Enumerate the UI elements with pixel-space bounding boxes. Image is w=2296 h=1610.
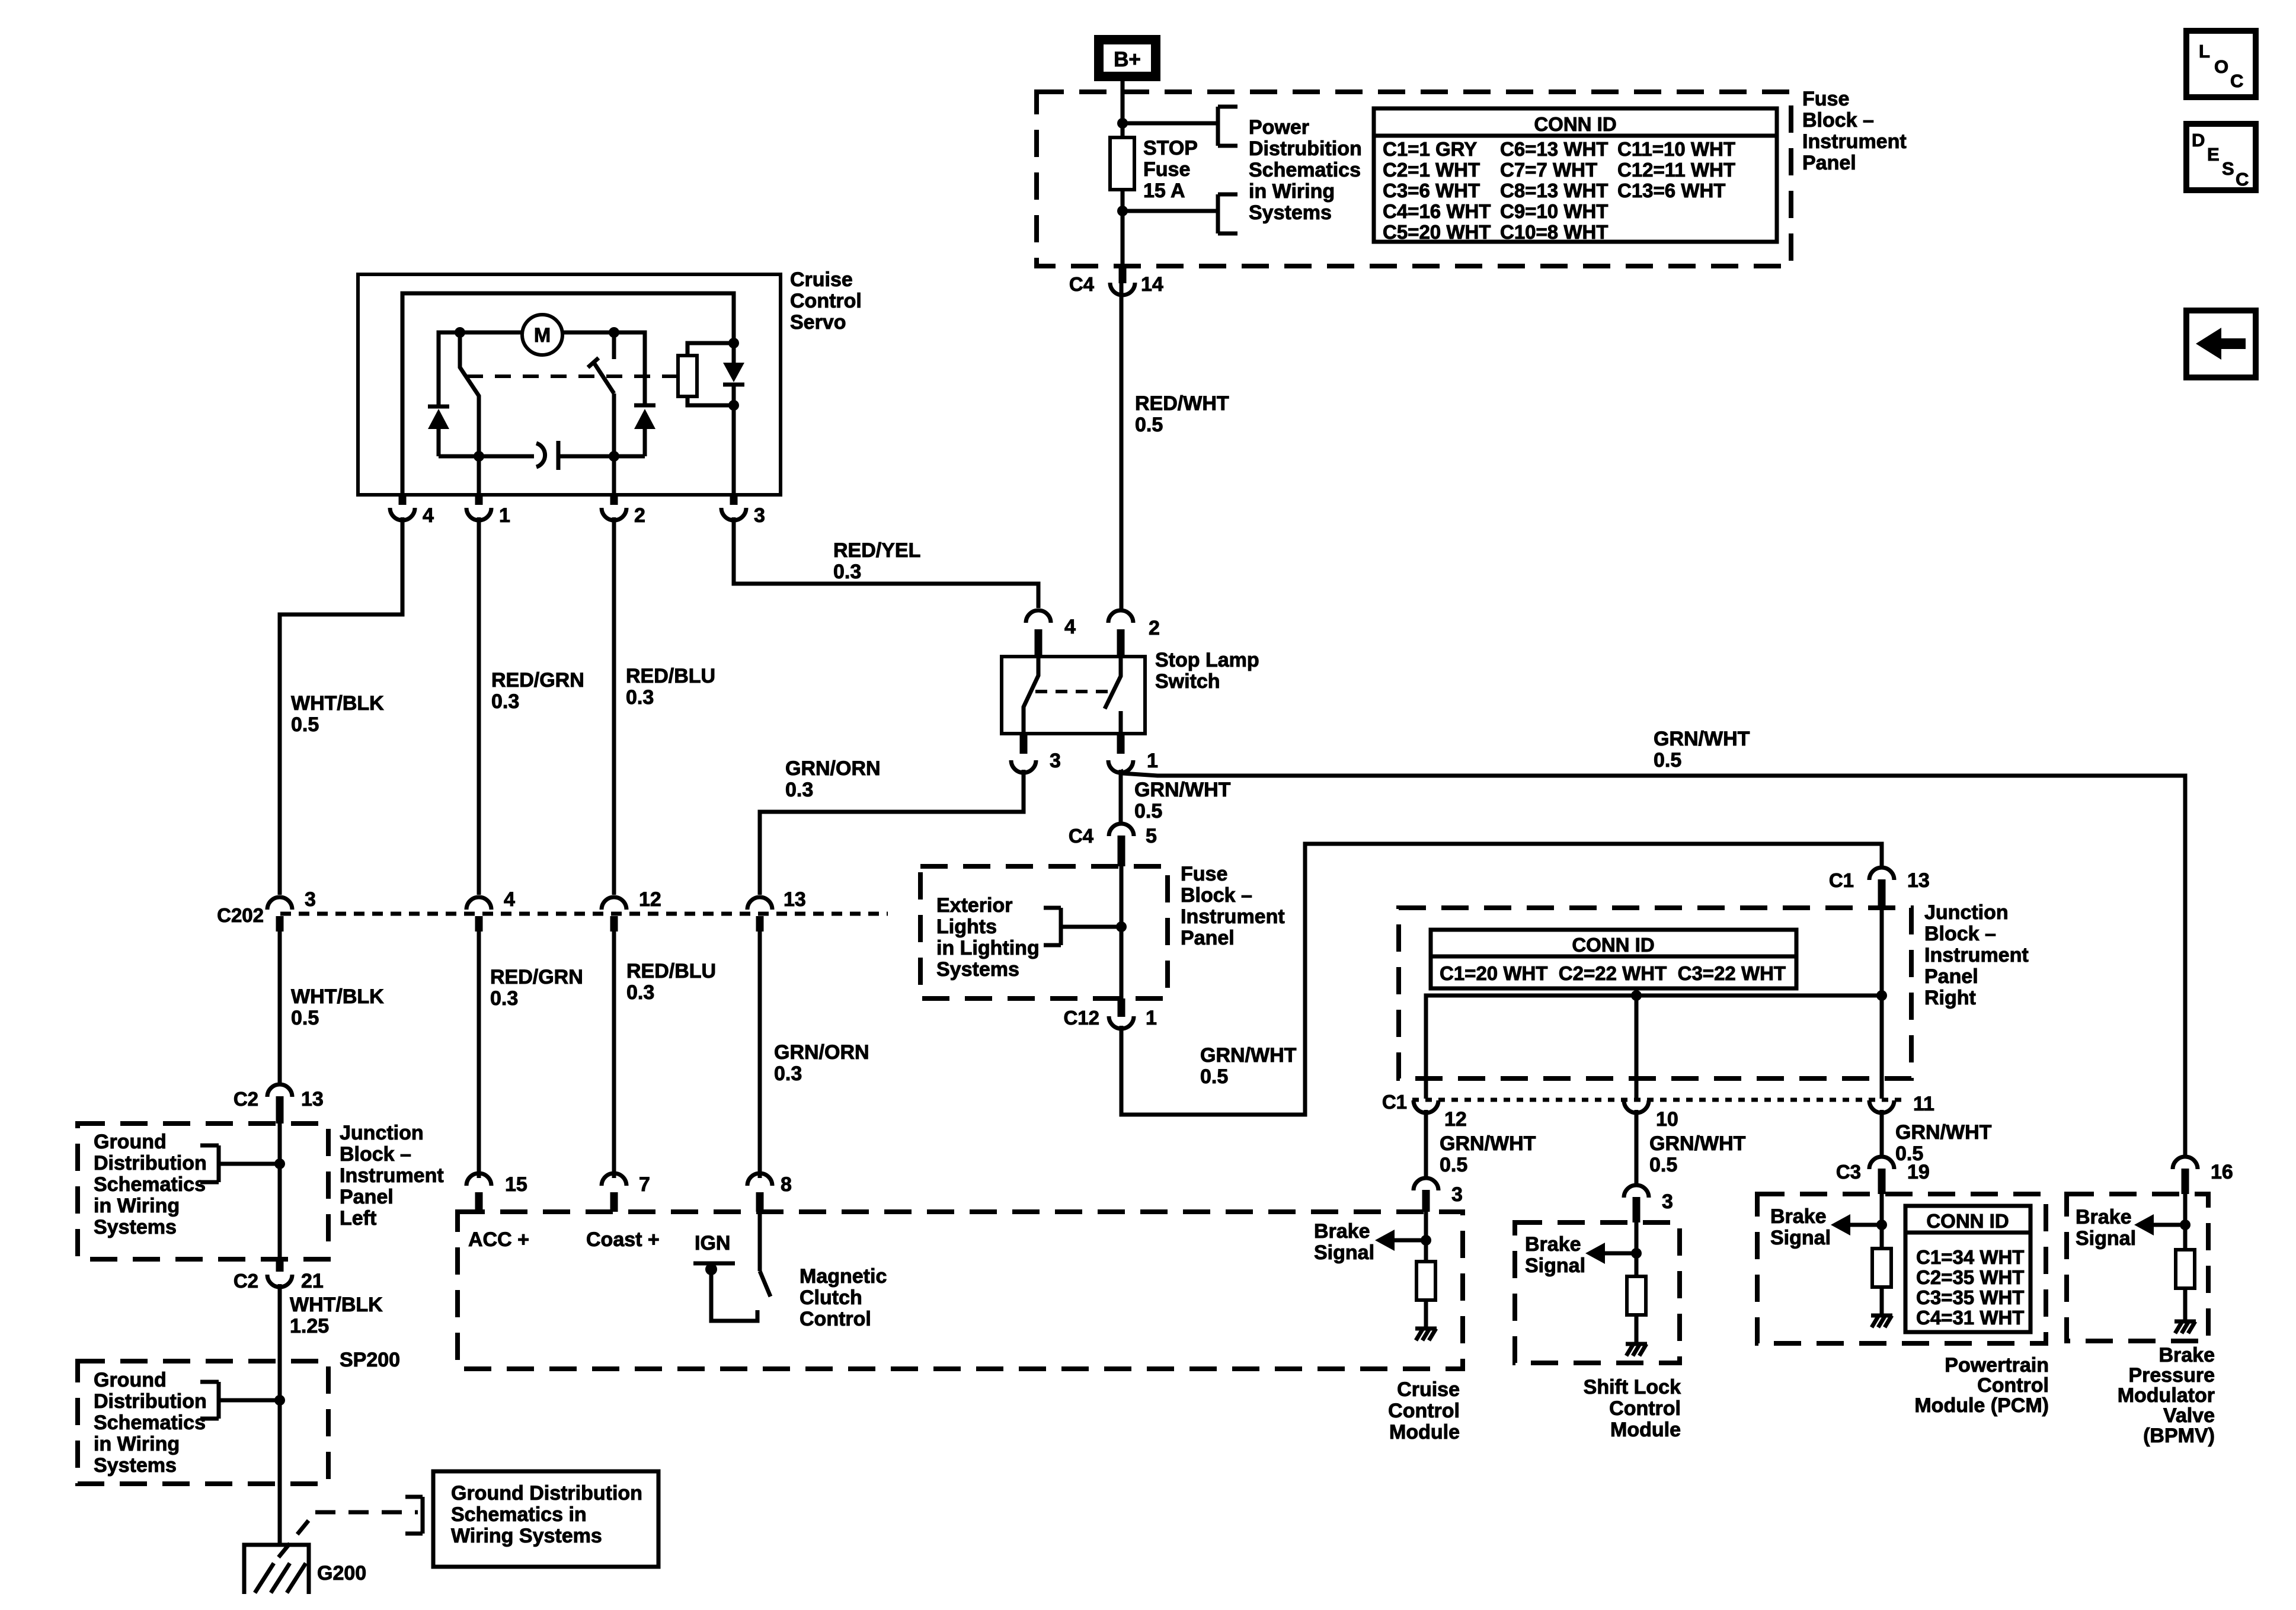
svg-text:RED/GRN: RED/GRN <box>490 966 583 988</box>
svg-text:Signal: Signal <box>1314 1241 1374 1264</box>
brake signal arrow shift <box>1605 1251 1636 1256</box>
wire exterior lights tap <box>1061 925 1121 929</box>
svg-text:M: M <box>534 324 551 347</box>
brake signal arrow pcm <box>1850 1223 1882 1227</box>
node pcm brake tap <box>1876 1219 1887 1230</box>
shift lock pin3 connector <box>1624 1185 1649 1198</box>
servo bottom wire left <box>439 454 534 459</box>
wire C1-13 through block <box>1880 908 1884 1099</box>
svg-text:Instrument: Instrument <box>340 1164 444 1187</box>
svg-text:0.5: 0.5 <box>1649 1154 1677 1176</box>
IGN feed symbol <box>693 1262 735 1266</box>
svg-text:C2: C2 <box>234 1088 258 1110</box>
svg-text:Instrument: Instrument <box>1802 130 1907 153</box>
servo switch 2 contact <box>612 332 616 359</box>
svg-text:Systems: Systems <box>94 1454 177 1477</box>
svg-text:Cruise: Cruise <box>1397 1378 1460 1401</box>
module pin 8 connector <box>747 1173 772 1186</box>
svg-text:C1: C1 <box>1382 1091 1407 1113</box>
svg-text:C1=1 GRY: C1=1 GRY <box>1383 138 1477 160</box>
svg-text:0.5: 0.5 <box>291 1007 319 1029</box>
wire inside junction left <box>278 1124 282 1259</box>
wire ground distribution tap 2 <box>219 1398 280 1403</box>
wire WHT/BLK C202-3 to C2-13 <box>278 932 282 1084</box>
node servo D3 bottom <box>728 400 739 411</box>
stop lamp pin 3 stub <box>1020 734 1028 754</box>
node motor line right <box>609 327 619 338</box>
svg-text:GRN/WHT: GRN/WHT <box>1134 779 1231 801</box>
svg-text:0.3: 0.3 <box>626 686 654 709</box>
BPMV dashed box <box>2067 1194 2208 1341</box>
connector C2 pin 21 <box>267 1275 292 1287</box>
svg-text:19: 19 <box>1907 1161 1930 1183</box>
svg-text:C1: C1 <box>1829 869 1854 891</box>
svg-text:C4: C4 <box>1069 825 1094 847</box>
svg-text:Ground: Ground <box>94 1369 167 1391</box>
svg-text:13: 13 <box>1907 869 1930 892</box>
svg-text:Block –: Block – <box>340 1143 411 1166</box>
connector C202 pin 12 <box>602 897 626 910</box>
battery feed B+ box <box>1094 35 1160 81</box>
svg-text:Schematics in: Schematics in <box>451 1503 587 1526</box>
brake signal arrow bpmv <box>2154 1223 2185 1227</box>
svg-text:Distribution: Distribution <box>94 1390 207 1413</box>
node motor line left <box>455 327 465 338</box>
svg-text:12: 12 <box>639 888 661 911</box>
stop lamp pin 1 connector <box>1108 760 1133 773</box>
magnetic clutch switch wire <box>758 1212 762 1271</box>
svg-text:C10=8 WHT: C10=8 WHT <box>1500 221 1608 243</box>
svg-text:GRN/WHT: GRN/WHT <box>1895 1121 1992 1144</box>
cruise control module dashed box <box>458 1212 1463 1369</box>
svg-text:Control: Control <box>1388 1400 1460 1422</box>
svg-text:0.3: 0.3 <box>626 981 654 1004</box>
svg-text:GRN/WHT: GRN/WHT <box>1200 1044 1297 1067</box>
wire junction bus <box>1426 996 1882 1099</box>
svg-text:14: 14 <box>1141 273 1163 296</box>
svg-text:C2=1 WHT: C2=1 WHT <box>1383 159 1480 181</box>
bracket exterior lights <box>1059 908 1063 945</box>
connector C1 pin 11 <box>1869 1100 1894 1113</box>
wire inside fuse block 2 <box>1120 866 1124 998</box>
fuse block 2 dashed box <box>920 866 1168 998</box>
bpmv pin16 connector <box>2173 1157 2198 1169</box>
servo inner loop wire <box>402 293 734 495</box>
svg-text:in Wiring: in Wiring <box>94 1195 180 1217</box>
servo pin 3 connector <box>721 508 746 520</box>
svg-text:0.5: 0.5 <box>1440 1154 1467 1176</box>
bpmv resistor <box>2176 1250 2195 1288</box>
wire RED/GRN servo pin1 to C202-4 <box>477 517 481 895</box>
svg-text:Fuse: Fuse <box>1802 88 1849 110</box>
connector C4 pin 14 stub <box>1119 266 1127 283</box>
svg-text:C12: C12 <box>1063 1007 1099 1029</box>
svg-text:7: 7 <box>639 1173 650 1196</box>
svg-text:Signal: Signal <box>2076 1227 2136 1250</box>
svg-text:16: 16 <box>2211 1161 2233 1183</box>
svg-text:in Lighting: in Lighting <box>936 937 1040 959</box>
wire ground distribution tap 1 <box>219 1162 280 1166</box>
svg-text:0.5: 0.5 <box>1135 414 1163 436</box>
svg-text:Systems: Systems <box>94 1216 177 1238</box>
connector C1 pin 12 <box>1414 1100 1438 1113</box>
wire RED/BLU C202-12 to pin7 <box>612 932 616 1178</box>
svg-text:21: 21 <box>301 1270 324 1292</box>
svg-text:Panel: Panel <box>1924 965 1978 988</box>
svg-text:CONN ID: CONN ID <box>1534 113 1616 135</box>
connector C2-13 stub <box>276 1096 284 1124</box>
svg-text:RED/YEL: RED/YEL <box>833 539 920 562</box>
wire B+ to fuse <box>1121 81 1125 137</box>
svg-text:Module: Module <box>1389 1421 1460 1443</box>
bpmv pin16 stub <box>2182 1169 2189 1194</box>
svg-text:IGN: IGN <box>695 1232 730 1254</box>
servo pin 1 connector <box>466 508 491 520</box>
connector C12 pin 1 stub <box>1118 998 1125 1017</box>
node bpmv brake tap <box>2180 1219 2191 1230</box>
svg-text:SP200: SP200 <box>340 1349 400 1371</box>
svg-text:WHT/BLK: WHT/BLK <box>291 985 384 1008</box>
wire RED/BLU servo pin2 to C202-12 <box>612 517 616 895</box>
svg-text:GRN/WHT: GRN/WHT <box>1440 1132 1536 1155</box>
servo resistor linkage tick <box>669 375 678 378</box>
svg-text:Right: Right <box>1924 987 1976 1009</box>
back arrow box <box>2186 311 2256 377</box>
svg-text:8: 8 <box>781 1173 792 1196</box>
svg-text:Block –: Block – <box>1802 109 1874 132</box>
stop lamp switch 1 blade <box>1024 657 1038 734</box>
wire servo pin1 inside <box>477 456 481 495</box>
svg-text:C11=10 WHT: C11=10 WHT <box>1617 138 1735 160</box>
svg-text:C12=11 WHT: C12=11 WHT <box>1617 159 1735 181</box>
dashed link to ground note <box>279 1512 315 1557</box>
svg-text:C3=35 WHT: C3=35 WHT <box>1916 1286 2024 1308</box>
wire WHT/BLK C2-21 down <box>278 1284 282 1547</box>
connector C202 pin 3 <box>267 897 292 910</box>
stop lamp pin 1 stub <box>1117 734 1125 754</box>
connector C4 pin 14 <box>1110 283 1135 295</box>
node junction bus right <box>1876 990 1887 1001</box>
connector C4 pin 5 <box>1109 824 1134 836</box>
ground bpmv <box>2175 1320 2196 1324</box>
wire C4-14 to stop lamp pin 2 <box>1120 283 1124 610</box>
svg-text:Control: Control <box>1609 1397 1681 1420</box>
svg-text:15 A: 15 A <box>1143 180 1185 202</box>
svg-text:Fuse: Fuse <box>1143 158 1190 181</box>
svg-text:13: 13 <box>301 1088 324 1110</box>
servo switch 2 blade <box>594 363 614 393</box>
svg-text:Pressure: Pressure <box>2128 1364 2215 1387</box>
wire shift resistor to ground <box>1635 1315 1639 1344</box>
wire junction branch 10 <box>1635 996 1639 1099</box>
wire cruise pin3 inside <box>1424 1212 1428 1262</box>
wire fuse top branch <box>1123 121 1218 126</box>
servo pin 2 stub <box>610 495 618 505</box>
svg-text:C5=20 WHT: C5=20 WHT <box>1383 221 1491 243</box>
svg-text:GRN/ORN: GRN/ORN <box>774 1041 869 1064</box>
svg-text:C13=6 WHT: C13=6 WHT <box>1617 180 1725 201</box>
svg-text:CONN ID: CONN ID <box>1572 934 1654 956</box>
diode D3 (down) <box>723 363 744 382</box>
wire GRN/ORN C202-13 to pin8 <box>758 932 762 1178</box>
svg-text:WHT/BLK: WHT/BLK <box>291 692 384 715</box>
servo resistor <box>678 356 697 396</box>
svg-text:C3: C3 <box>1836 1161 1861 1183</box>
node shift brake tap <box>1631 1248 1642 1259</box>
wire pcm resistor to ground <box>1880 1287 1884 1315</box>
node ground tap 1 <box>274 1158 285 1169</box>
svg-text:Shift Lock: Shift Lock <box>1584 1376 1681 1398</box>
connector C202 pin 4 stub <box>475 916 483 932</box>
DESC reference box <box>2186 124 2256 190</box>
node junction bus mid <box>1631 990 1642 1001</box>
svg-text:Block –: Block – <box>1181 884 1252 907</box>
motor M circle <box>522 315 562 355</box>
svg-text:0.3: 0.3 <box>833 561 861 583</box>
stop lamp switch 2 lower <box>1119 711 1123 734</box>
connector C202 pin 13 <box>747 897 772 910</box>
svg-text:C: C <box>2230 71 2243 91</box>
svg-text:13: 13 <box>784 888 806 911</box>
svg-text:10: 10 <box>1656 1108 1678 1131</box>
wire RED/YEL servo pin3 to stop lamp pin4 <box>734 517 1038 608</box>
connector C202 pin 13 stub <box>756 916 764 932</box>
wire motor line right segment <box>562 332 645 404</box>
svg-text:Distrubition: Distrubition <box>1249 137 1362 160</box>
svg-text:Block –: Block – <box>1924 923 1996 945</box>
svg-text:C4=16 WHT: C4=16 WHT <box>1383 200 1491 222</box>
bracket to power distribution bottom <box>1216 194 1220 233</box>
svg-text:12: 12 <box>1444 1108 1467 1131</box>
svg-text:Wiring Systems: Wiring Systems <box>451 1525 602 1547</box>
svg-text:4: 4 <box>504 888 515 911</box>
wire GRN/WHT to PCM <box>1880 1110 1884 1156</box>
LOC reference box <box>2186 31 2256 97</box>
svg-text:Schematics: Schematics <box>94 1173 206 1196</box>
junction C1 row dotted line <box>1412 1098 1902 1102</box>
svg-text:RED/BLU: RED/BLU <box>626 665 715 687</box>
svg-text:S: S <box>2222 158 2234 179</box>
svg-text:1: 1 <box>499 504 510 527</box>
bracket to power distribution top <box>1216 107 1220 146</box>
stop lamp pin 2 stub <box>1117 629 1125 657</box>
svg-text:C2=35 WHT: C2=35 WHT <box>1916 1266 2024 1288</box>
svg-text:C2: C2 <box>234 1270 258 1292</box>
table CONN ID pcm <box>1905 1206 2030 1332</box>
svg-text:Fuse: Fuse <box>1181 863 1227 885</box>
servo pin 2 connector <box>602 508 626 520</box>
svg-text:Brake: Brake <box>1314 1220 1370 1243</box>
connector C2 pin 13 <box>267 1084 292 1097</box>
stop lamp linkage dashed <box>1035 690 1112 693</box>
node ground tap 2 <box>274 1395 285 1406</box>
svg-text:Instrument: Instrument <box>1181 905 1285 928</box>
svg-text:Modulator: Modulator <box>2118 1384 2215 1407</box>
cruise resistor <box>1416 1262 1435 1300</box>
servo bottom wire right <box>559 454 645 459</box>
node fuse top junction <box>1117 118 1128 129</box>
svg-text:C6=13 WHT: C6=13 WHT <box>1500 138 1608 160</box>
stop lamp pin 2 connector <box>1108 610 1133 623</box>
servo switch 1 <box>460 332 479 456</box>
wire bpmv pin inside <box>2183 1194 2188 1250</box>
node servo bottom pin2 <box>609 451 619 462</box>
svg-text:Brake: Brake <box>2076 1206 2132 1228</box>
svg-text:Brake: Brake <box>1525 1233 1581 1256</box>
capacitor flat plate <box>557 441 561 470</box>
junction block right dashed box <box>1399 908 1911 1078</box>
wire cruise pin3 connector <box>1414 1178 1438 1190</box>
svg-text:0.5: 0.5 <box>1654 749 1681 772</box>
svg-text:Powertrain: Powertrain <box>1945 1354 2049 1377</box>
svg-text:Module: Module <box>1610 1419 1681 1441</box>
svg-text:Schematics: Schematics <box>1249 159 1361 181</box>
svg-text:0.3: 0.3 <box>785 779 813 801</box>
svg-text:Clutch: Clutch <box>800 1286 862 1309</box>
svg-text:Power: Power <box>1249 116 1309 139</box>
svg-text:0.5: 0.5 <box>1200 1065 1228 1088</box>
wire shift pin3 inside <box>1635 1222 1639 1276</box>
diode D2 (up) <box>634 404 655 408</box>
ground shift module <box>1626 1342 1647 1346</box>
svg-text:0.3: 0.3 <box>491 690 519 713</box>
servo switch 2 lower wire <box>612 393 616 456</box>
C202 dashed line <box>280 912 888 916</box>
module pin 7 connector <box>602 1173 626 1186</box>
connector C1-13 stub <box>1878 879 1886 908</box>
svg-text:0.5: 0.5 <box>291 713 319 736</box>
svg-text:C7=7 WHT: C7=7 WHT <box>1500 159 1597 181</box>
svg-text:0.3: 0.3 <box>490 987 518 1010</box>
stop lamp switch 2 blade <box>1105 657 1121 709</box>
svg-text:Systems: Systems <box>1249 201 1332 224</box>
cruise pin3 stub <box>1422 1190 1430 1212</box>
capacitor curved plate <box>536 443 545 467</box>
svg-text:ACC +: ACC + <box>468 1228 529 1251</box>
diode D1 (up) <box>428 405 449 409</box>
bracket ground note <box>421 1497 425 1534</box>
servo pin 4 stub <box>399 495 407 505</box>
cruise control servo box <box>358 274 781 495</box>
PCM dashed box <box>1757 1194 2046 1343</box>
svg-text:Instrument: Instrument <box>1924 944 2029 966</box>
svg-text:GRN/WHT: GRN/WHT <box>1649 1132 1746 1155</box>
svg-text:1.25: 1.25 <box>290 1315 329 1337</box>
svg-text:Stop Lamp: Stop Lamp <box>1155 649 1259 671</box>
svg-text:Valve: Valve <box>2163 1404 2215 1427</box>
junction block left dashed box <box>78 1124 328 1259</box>
wire GRN/WHT C12-1 to junction block <box>1121 844 1882 1115</box>
connector C12 pin 1 <box>1109 1016 1134 1029</box>
wire GRN/WHT to cruise module <box>1424 1110 1428 1177</box>
connector C202 pin 12 stub <box>610 916 618 932</box>
svg-text:Junction: Junction <box>340 1122 424 1144</box>
svg-text:C4=31 WHT: C4=31 WHT <box>1916 1307 2024 1329</box>
fuse block instrument panel dashed box <box>1037 92 1791 266</box>
svg-text:Module (PCM): Module (PCM) <box>1914 1394 2049 1417</box>
svg-text:Switch: Switch <box>1155 670 1220 693</box>
svg-text:11: 11 <box>1913 1093 1934 1115</box>
svg-text:Ground Distribution: Ground Distribution <box>451 1482 642 1505</box>
wire bpmv resistor to ground <box>2183 1288 2188 1321</box>
stop lamp pin 3 connector <box>1011 760 1036 773</box>
servo resistor top tap <box>687 343 734 356</box>
svg-text:1: 1 <box>1146 1007 1157 1029</box>
svg-text:Signal: Signal <box>1770 1227 1831 1249</box>
node servo D3 top <box>728 338 739 348</box>
fuse STOP 15A <box>1110 137 1134 190</box>
svg-text:CONN ID: CONN ID <box>1926 1210 2009 1232</box>
svg-text:Magnetic: Magnetic <box>800 1265 887 1288</box>
svg-text:4: 4 <box>423 504 434 527</box>
svg-text:C4: C4 <box>1069 273 1095 295</box>
svg-text:3: 3 <box>754 504 765 527</box>
svg-text:C202: C202 <box>217 904 264 926</box>
svg-text:Distribution: Distribution <box>94 1152 207 1174</box>
svg-text:O: O <box>2214 56 2228 77</box>
svg-text:C8=13 WHT: C8=13 WHT <box>1500 180 1608 201</box>
svg-text:in Wiring: in Wiring <box>1249 180 1335 203</box>
svg-text:3: 3 <box>305 888 316 911</box>
svg-text:Signal: Signal <box>1525 1254 1585 1277</box>
svg-text:2: 2 <box>1149 617 1160 639</box>
svg-text:GRN/WHT: GRN/WHT <box>1654 728 1750 750</box>
svg-text:Panel: Panel <box>1802 152 1856 174</box>
motor sub-circuit left rail <box>439 332 522 405</box>
svg-text:Schematics: Schematics <box>94 1411 206 1434</box>
node cruise brake tap <box>1421 1235 1431 1246</box>
svg-text:Cruise: Cruise <box>790 268 853 291</box>
svg-text:(BPMV): (BPMV) <box>2143 1425 2215 1447</box>
svg-text:C1=20 WHT C2=22 WHT C3=22 WH: C1=20 WHT C2=22 WHT C3=22 WHT <box>1440 962 1786 984</box>
pcm resistor <box>1872 1249 1891 1287</box>
ground pcm <box>1871 1314 1892 1318</box>
stop lamp pin 4 stub <box>1035 629 1043 657</box>
module pin 7 stub <box>610 1192 618 1212</box>
svg-text:Panel: Panel <box>340 1186 394 1208</box>
node exterior lights tap <box>1116 921 1127 932</box>
wire cruise resistor to ground <box>1424 1300 1428 1329</box>
connector C3 pin 19 <box>1869 1157 1894 1169</box>
brake signal arrow cruise <box>1395 1238 1426 1243</box>
wire fuse bottom branch <box>1123 209 1218 213</box>
svg-text:E: E <box>2207 144 2220 165</box>
wire servo pin3 rail <box>732 385 736 495</box>
svg-text:Exterior: Exterior <box>936 894 1013 917</box>
svg-text:D: D <box>2192 130 2205 151</box>
shift resistor <box>1627 1276 1646 1315</box>
svg-text:Junction: Junction <box>1924 901 2009 924</box>
svg-text:0.5: 0.5 <box>1134 800 1162 822</box>
svg-text:L: L <box>2199 41 2210 62</box>
svg-text:Coast +: Coast + <box>586 1228 660 1251</box>
svg-text:Brake: Brake <box>2159 1344 2215 1366</box>
svg-text:1: 1 <box>1147 750 1158 772</box>
svg-text:Control: Control <box>1977 1374 2049 1397</box>
node fuse bottom junction <box>1117 206 1128 216</box>
C3-19 stub <box>1878 1169 1886 1194</box>
wire GRN/WHT to shift lock <box>1635 1110 1639 1185</box>
svg-text:2: 2 <box>634 504 645 527</box>
ground G200 symbol <box>244 1545 309 1594</box>
connector C1 pin 13 <box>1869 868 1894 880</box>
svg-text:Servo: Servo <box>790 311 846 334</box>
svg-text:Lights: Lights <box>936 916 997 938</box>
stop lamp switch box <box>1002 657 1145 734</box>
svg-text:4: 4 <box>1064 616 1076 638</box>
svg-text:G200: G200 <box>317 1562 366 1585</box>
svg-text:0.3: 0.3 <box>774 1062 802 1085</box>
